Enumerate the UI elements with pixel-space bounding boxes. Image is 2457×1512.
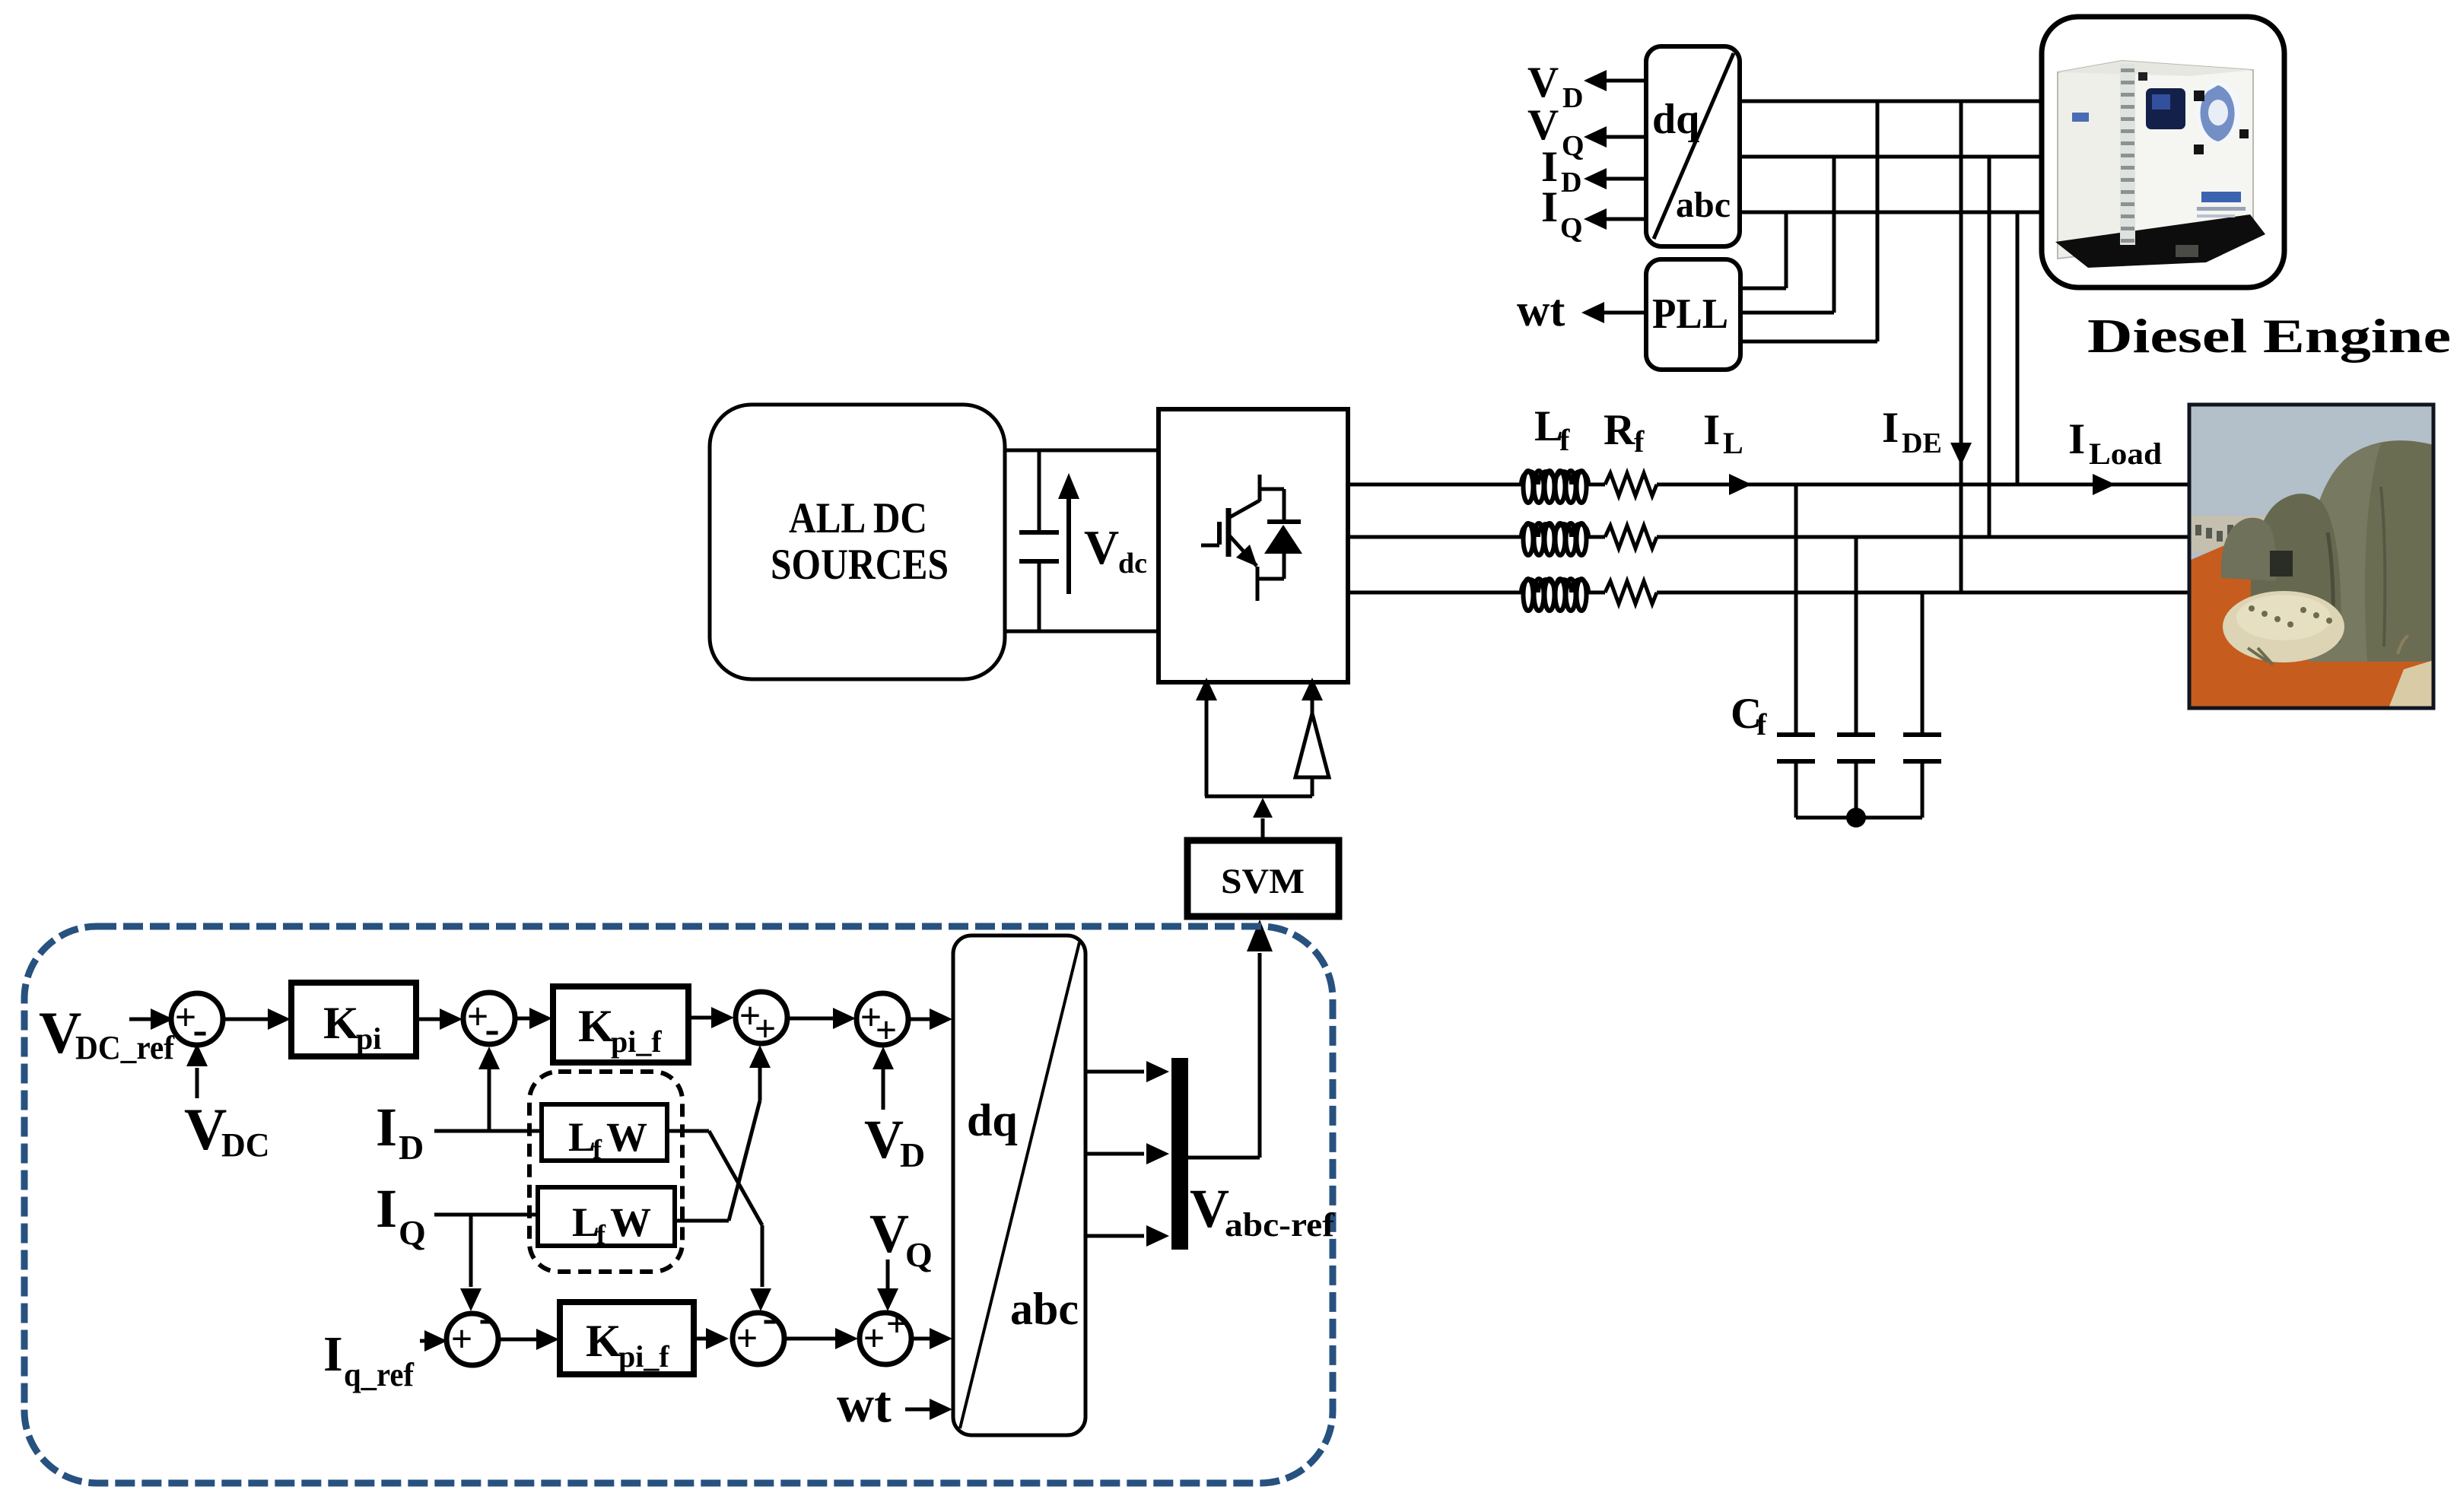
svg-text:V: V	[864, 1109, 904, 1170]
svg-text:dq: dq	[967, 1095, 1018, 1145]
gain block LfW lower	[538, 1187, 675, 1246]
transistor IGBT	[1201, 475, 1284, 601]
ILoad current arrow	[2093, 474, 2115, 495]
wire Kpif1 to sum3	[688, 1016, 711, 1020]
wire dc bottom	[1005, 630, 1159, 634]
IDE current arrow	[1950, 443, 1972, 465]
svg-text:abc: abc	[1010, 1284, 1079, 1334]
inductor Lf phase3	[1521, 579, 1588, 611]
wire sum7 to dq block	[911, 1337, 930, 1341]
summing junction S3	[736, 992, 787, 1043]
wire dc top	[1005, 449, 1159, 453]
wire phase 1	[1348, 483, 1521, 487]
node VQ output arrow	[1607, 135, 1646, 139]
svg-text:D: D	[900, 1136, 925, 1174]
svg-text:f: f	[1634, 424, 1645, 459]
summing junction S4	[857, 993, 908, 1045]
inverter block	[1159, 409, 1348, 682]
load image (military camp)	[2189, 405, 2433, 708]
capacitor Cf 2	[1837, 732, 1875, 737]
node VD output arrow	[1607, 79, 1646, 83]
decoupling dashed group	[529, 1072, 682, 1272]
svg-text:+: +	[863, 1317, 885, 1359]
svg-text:-: -	[762, 1293, 777, 1342]
diesel generator image frame	[2042, 17, 2284, 287]
inductor Lf phase1	[1521, 471, 1588, 503]
svg-text:R: R	[1604, 406, 1635, 454]
wire IQ branch down to sum5	[469, 1215, 473, 1287]
wire dq to engine phase c	[1740, 211, 2042, 214]
wire PLL input 2	[1832, 157, 1836, 313]
svg-text:V: V	[1084, 520, 1119, 574]
wire PLL input 3	[1876, 101, 1880, 341]
svg-text:K: K	[323, 998, 359, 1048]
svg-text:Diesel Engine: Diesel Engine	[2087, 309, 2451, 363]
dq/abc transform block (control)	[953, 935, 1085, 1435]
svg-text:f: f	[1559, 423, 1570, 457]
svg-text:D: D	[399, 1128, 424, 1167]
svg-text:PLL: PLL	[1652, 291, 1728, 338]
VDC feedback arrow	[195, 1068, 199, 1098]
wire phase 3	[1348, 591, 1521, 595]
svg-text:K: K	[586, 1316, 621, 1366]
wire dq out a	[1085, 1070, 1144, 1074]
IL current arrow	[1729, 474, 1752, 495]
svg-text:W: W	[606, 1114, 647, 1160]
wire dq to engine phase a	[1740, 100, 2042, 103]
wire sum4 to dq block	[908, 1018, 930, 1021]
gain block Kpi_f lower	[560, 1302, 694, 1374]
svg-text:-: -	[485, 1004, 499, 1053]
svg-text:V: V	[869, 1203, 909, 1264]
wire Vabcref feedback up to SVM	[1258, 953, 1262, 1158]
wire IQ to LfW2	[434, 1213, 538, 1217]
gain block LfW upper	[542, 1104, 667, 1161]
node Vabc-ref bus bar	[1171, 1058, 1188, 1250]
wire gate right + buffer triangle	[1311, 696, 1314, 713]
resistor Rf phase1	[1605, 473, 1657, 496]
svg-text:abc: abc	[1676, 185, 1731, 225]
wire SVM to gates	[1261, 818, 1265, 840]
svg-text:Q: Q	[399, 1213, 426, 1252]
wire sum1 to Kpi	[223, 1018, 268, 1021]
svg-text:V: V	[1190, 1178, 1229, 1239]
wire wt into dq	[905, 1408, 930, 1412]
summing junction S2	[463, 993, 515, 1044]
diode antiparallel	[1264, 489, 1302, 579]
wire engine drop to bus phase 2	[1988, 157, 1991, 537]
svg-text:wt: wt	[1517, 285, 1565, 335]
wire Kpi to sum2	[416, 1018, 440, 1021]
wire gate horizontal	[1205, 795, 1312, 799]
svg-text:f: f	[596, 1219, 606, 1250]
svg-text:-: -	[192, 1005, 207, 1054]
node ID output arrow	[1607, 177, 1646, 181]
wire VQ down to sum7	[886, 1259, 890, 1288]
summing junction S6	[733, 1313, 784, 1364]
summing junction S7	[860, 1313, 911, 1364]
svg-text:pi_f: pi_f	[618, 1339, 669, 1374]
svg-text:DC_ref: DC_ref	[75, 1029, 175, 1066]
wire bar to feedback riser	[1188, 1156, 1260, 1160]
resistor Rf phase3	[1605, 581, 1657, 604]
svg-text:I: I	[323, 1326, 343, 1382]
svg-text:dc: dc	[1118, 548, 1147, 580]
node neutral junction	[1846, 808, 1866, 827]
wire sum6 to sum7	[784, 1337, 835, 1341]
wire LfW1 cross to sum6	[667, 1129, 709, 1133]
svg-text:pi_f: pi_f	[611, 1024, 662, 1059]
svg-text:+: +	[755, 1007, 777, 1050]
svg-text:W: W	[610, 1199, 651, 1245]
svg-text:DC: DC	[221, 1126, 270, 1164]
summing junction S1	[171, 993, 223, 1045]
capacitor Cf 3	[1903, 732, 1941, 737]
ALL DC SOURCES block	[710, 405, 1005, 679]
svg-text:ALL DC: ALL DC	[789, 494, 927, 542]
svg-text:L: L	[568, 1114, 596, 1160]
dq/abc transform block (measurement)	[1646, 46, 1740, 246]
svg-text:D: D	[1561, 167, 1581, 199]
wire gate left	[1205, 696, 1209, 796]
wire sum3 to sum4	[787, 1017, 833, 1021]
svg-text:Q: Q	[1562, 130, 1584, 162]
wire engine drop to bus phase 1	[2016, 212, 2020, 484]
gain block Kpi	[291, 983, 416, 1056]
wire phase 2	[1348, 535, 1521, 539]
wire Kpif2 to sum6	[694, 1337, 706, 1341]
wire VD up to sum4	[882, 1066, 885, 1110]
svg-text:pi: pi	[356, 1021, 381, 1056]
wire PLL input 1	[1785, 212, 1788, 288]
svg-text:+: +	[876, 1009, 898, 1051]
svg-text:q_ref: q_ref	[344, 1356, 415, 1393]
wire LfW2 cross to sum3	[675, 1219, 729, 1223]
svg-text:I: I	[1541, 183, 1558, 231]
wire ID to LfW1	[434, 1129, 542, 1133]
svg-text:+: +	[886, 1302, 908, 1345]
wire dq out c	[1085, 1234, 1144, 1238]
wire cap drop 2	[1855, 537, 1858, 735]
wire cap drop 1	[1794, 484, 1798, 735]
gain block Kpi_f upper	[553, 986, 688, 1063]
svg-text:I: I	[1703, 406, 1720, 454]
svg-text:V: V	[184, 1096, 227, 1162]
node IQ output arrow	[1607, 218, 1646, 221]
svg-text:I: I	[1882, 404, 1899, 452]
wire sum2 to Kpif1	[515, 1017, 529, 1021]
svg-text:V: V	[1527, 59, 1559, 106]
SVM block	[1187, 840, 1339, 916]
capacitor Vdc	[1038, 450, 1041, 532]
svg-text:Q: Q	[905, 1235, 933, 1274]
svg-text:K: K	[578, 1001, 614, 1051]
svg-text:V: V	[1527, 101, 1559, 149]
wire cap drop 3	[1921, 592, 1925, 735]
svg-text:Load: Load	[2089, 437, 2162, 471]
svg-text:I: I	[376, 1178, 397, 1239]
wire dq out b	[1085, 1152, 1144, 1156]
Vdc arrow	[1066, 498, 1071, 594]
PLL block	[1646, 259, 1740, 370]
wire Iqref to sum5	[420, 1339, 424, 1343]
svg-text:I: I	[2068, 415, 2085, 463]
svg-text:Q: Q	[1560, 212, 1583, 244]
svg-text:-: -	[478, 1293, 493, 1342]
wire IDE drop to bus phase 3	[1960, 101, 1963, 592]
svg-text:+: +	[736, 1317, 758, 1359]
summing junction S5	[447, 1313, 498, 1365]
wire dq to engine phase b	[1740, 155, 2042, 159]
wire ID branch up to sum2	[488, 1068, 491, 1131]
wire cap common bus	[1796, 816, 1922, 820]
svg-text:f: f	[593, 1134, 602, 1164]
inductor Lf phase2	[1521, 523, 1588, 555]
svg-text:wt: wt	[837, 1375, 892, 1433]
svg-text:f: f	[1756, 707, 1767, 742]
svg-text:+: +	[451, 1317, 473, 1360]
svg-text:SVM: SVM	[1221, 862, 1305, 901]
resistor Rf phase2	[1605, 526, 1657, 548]
svg-text:dq: dq	[1652, 96, 1699, 143]
svg-text:SOURCES: SOURCES	[771, 541, 949, 589]
wire VDCref into sum1	[129, 1018, 152, 1021]
wt output arrow	[1604, 311, 1646, 315]
svg-text:L: L	[1723, 426, 1743, 460]
capacitor Cf 1	[1777, 732, 1815, 737]
svg-text:I: I	[376, 1097, 397, 1158]
svg-text:D: D	[1562, 82, 1583, 114]
svg-text:DE: DE	[1902, 427, 1942, 459]
wire sum5 to Kpif2	[498, 1338, 536, 1342]
svg-text:abc-ref: abc-ref	[1225, 1206, 1335, 1244]
control region dashed boundary	[24, 926, 1333, 1483]
svg-text:L: L	[572, 1199, 599, 1245]
